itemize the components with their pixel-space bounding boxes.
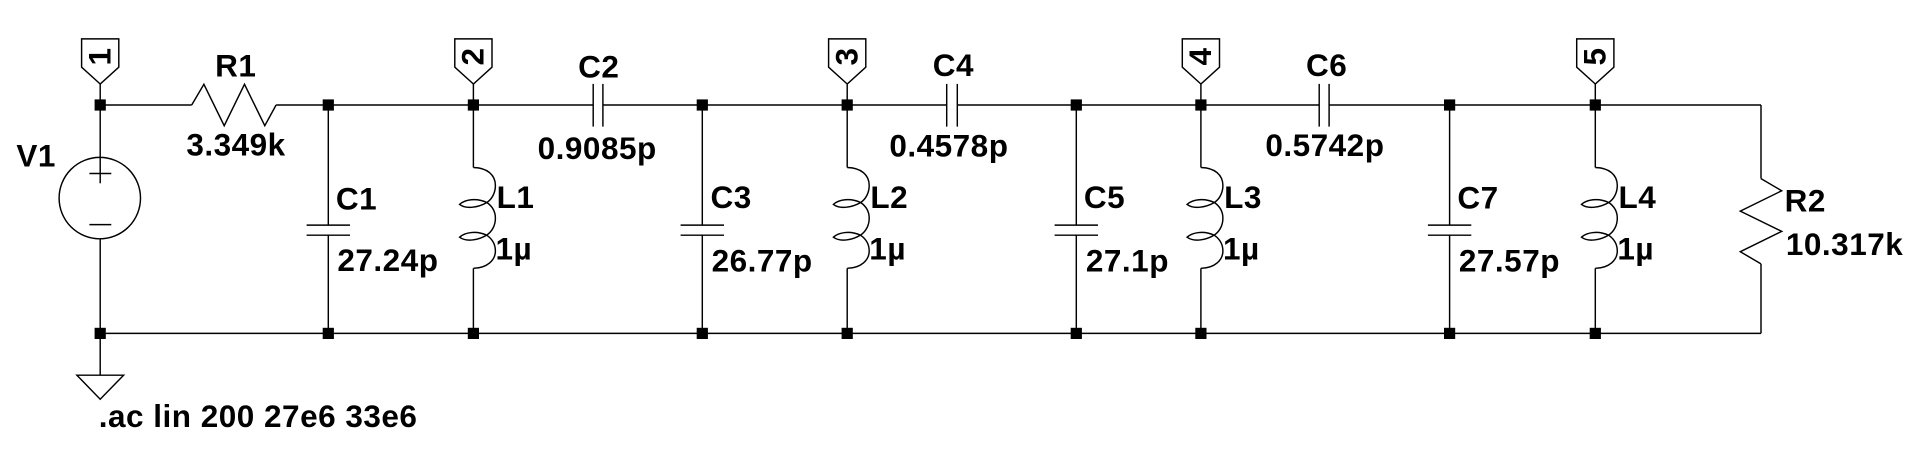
svg-text:1µ: 1µ (496, 230, 533, 266)
svg-text:4: 4 (1182, 47, 1218, 65)
svg-text:27.24p: 27.24p (337, 242, 438, 278)
svg-text:C6: C6 (1306, 47, 1347, 83)
svg-text:C1: C1 (336, 181, 377, 217)
svg-text:1µ: 1µ (1223, 230, 1260, 266)
svg-text:1: 1 (82, 47, 118, 65)
svg-text:C3: C3 (711, 179, 752, 215)
svg-text:0.9085p: 0.9085p (538, 130, 657, 166)
svg-text:0.5742p: 0.5742p (1265, 127, 1384, 163)
svg-text:27.57p: 27.57p (1459, 242, 1560, 278)
svg-text:5: 5 (1577, 47, 1613, 65)
svg-text:C7: C7 (1457, 179, 1498, 215)
svg-text:0.4578p: 0.4578p (889, 128, 1008, 164)
svg-text:L2: L2 (870, 179, 908, 215)
svg-text:V1: V1 (16, 137, 56, 173)
svg-text:L4: L4 (1619, 179, 1657, 215)
svg-text:C2: C2 (578, 48, 619, 84)
svg-text:.ac lin 200 27e6 33e6: .ac lin 200 27e6 33e6 (99, 398, 418, 434)
svg-text:1µ: 1µ (1617, 230, 1654, 266)
svg-text:R1: R1 (215, 47, 256, 83)
svg-text:26.77p: 26.77p (712, 243, 813, 279)
svg-text:C4: C4 (933, 47, 974, 83)
svg-text:L3: L3 (1224, 179, 1262, 215)
svg-text:2: 2 (455, 47, 491, 65)
svg-text:10.317k: 10.317k (1786, 226, 1903, 262)
svg-text:1µ: 1µ (869, 230, 906, 266)
svg-text:L1: L1 (497, 179, 535, 215)
svg-text:3: 3 (829, 47, 865, 65)
svg-text:R2: R2 (1785, 182, 1826, 218)
svg-text:C5: C5 (1084, 179, 1125, 215)
svg-text:27.1p: 27.1p (1086, 243, 1169, 279)
svg-text:3.349k: 3.349k (186, 126, 285, 162)
